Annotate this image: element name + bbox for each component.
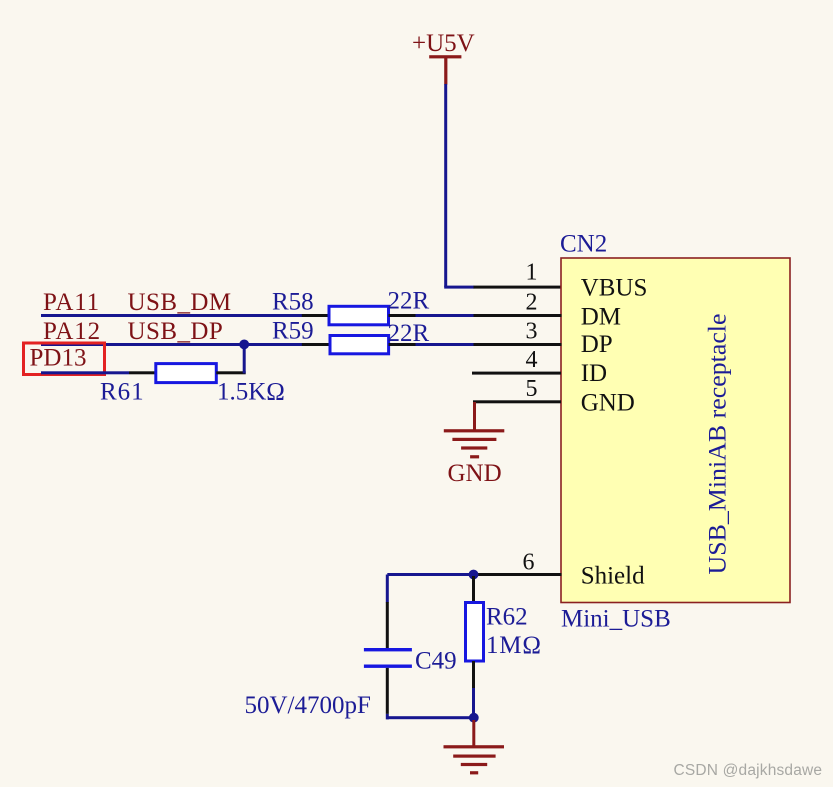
svg-text:CN2: CN2 [560,231,607,258]
svg-text:C49: C49 [415,648,457,675]
svg-text:Shield: Shield [581,563,645,590]
svg-text:6: 6 [523,550,535,576]
wire [129,371,156,374]
wire [41,314,302,317]
svg-text:1.5KΩ: 1.5KΩ [217,379,285,406]
svg-text:4: 4 [526,347,538,373]
svg-text:1MΩ: 1MΩ [486,632,542,659]
wire [389,314,416,317]
wire [387,716,474,719]
svg-text:50V/4700pF: 50V/4700pF [245,692,371,719]
svg-text:DM: DM [581,303,621,330]
wire [41,343,302,346]
svg-text:PA12: PA12 [43,318,101,345]
wire [474,573,562,576]
svg-text:2: 2 [526,290,538,316]
junction dot [239,340,249,350]
wire [389,343,416,346]
resistor R61 [100,364,216,406]
svg-text:VBUS: VBUS [581,275,648,302]
wire [472,661,475,688]
wire [41,371,129,374]
junction dot [469,570,479,580]
wire [472,372,561,375]
wire [387,573,475,576]
svg-text:USB_DP: USB_DP [128,318,224,345]
svg-text:R58: R58 [272,289,314,316]
power +U5V [412,30,475,85]
wire [473,402,476,431]
wire [302,343,331,346]
resistor R59 [272,318,389,354]
svg-text:USB_MiniAB receptacle: USB_MiniAB receptacle [705,314,732,575]
wire [472,576,475,603]
svg-text:3: 3 [526,319,538,345]
resistor R62 [466,603,528,662]
wire [444,286,474,289]
wire [444,84,447,287]
svg-text:CSDN @dajkhsdawe: CSDN @dajkhsdawe [674,762,823,779]
wire [473,400,561,403]
wire [216,371,245,374]
svg-text:1: 1 [526,260,538,286]
wire [386,602,389,649]
wire [386,575,389,603]
svg-text:22R: 22R [388,288,430,315]
svg-text:GND: GND [581,390,635,417]
resistor R58 [272,289,389,325]
net label box PD13 [24,343,105,375]
svg-text:+U5V: +U5V [412,30,475,57]
svg-text:R62: R62 [486,604,528,631]
svg-text:DP: DP [581,331,613,358]
svg-text:GND: GND [448,460,502,487]
wire [474,314,562,317]
wire [386,714,389,720]
wire [386,668,389,714]
svg-text:5: 5 [526,376,538,402]
svg-text:PD13: PD13 [30,345,87,372]
capacitor C49 [364,648,457,675]
svg-text:Mini_USB: Mini_USB [561,606,671,633]
svg-text:ID: ID [581,360,607,387]
wire [416,343,474,346]
wire [472,720,475,746]
wire [474,286,562,289]
svg-text:R59: R59 [272,318,314,345]
connector CN2 box [561,258,790,603]
ground [444,745,505,774]
svg-text:22R: 22R [388,320,430,347]
wire [243,344,246,373]
wire [302,314,330,317]
wire [474,343,562,346]
svg-text:R61: R61 [100,379,145,406]
wire [472,688,475,718]
wire [416,314,474,317]
junction dot [469,713,479,723]
svg-text:USB_DM: USB_DM [128,289,232,316]
ground [444,429,505,487]
svg-text:PA11: PA11 [43,289,100,316]
